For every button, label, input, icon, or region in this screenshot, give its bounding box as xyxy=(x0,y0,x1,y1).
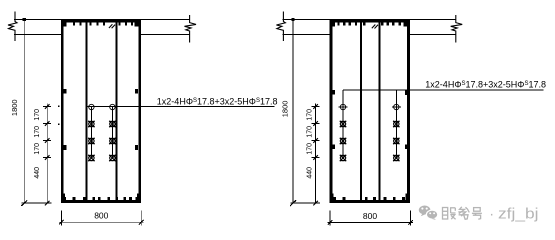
svg-text:1x2-4HΦS17.8+3x2-5HΦS17.8: 1x2-4HΦS17.8+3x2-5HΦS17.8 xyxy=(425,80,546,90)
dimension 800 bottom xyxy=(329,211,331,226)
break line left xyxy=(276,12,285,42)
web 2 xyxy=(378,22,380,200)
break line left xyxy=(8,12,17,42)
bar bend marks top middle xyxy=(372,25,376,29)
tendon column B connector xyxy=(395,90,397,158)
chain ticks xyxy=(43,107,51,158)
svg-text:800: 800 xyxy=(363,211,377,221)
web 2 xyxy=(115,22,117,200)
tendon anchors column A xyxy=(339,104,348,161)
beam bottom edge thick xyxy=(330,200,410,203)
deck slab soffit line left part xyxy=(14,33,61,35)
tendon anchors column B xyxy=(109,104,115,161)
svg-text:170: 170 xyxy=(307,109,314,121)
beam outline xyxy=(331,21,409,202)
glyph 服 xyxy=(443,208,456,220)
beam top edge thick xyxy=(61,20,141,23)
stirrup ticks bottom edge xyxy=(330,193,409,200)
extension dots xyxy=(58,106,60,108)
dimension 1800 right drawing xyxy=(292,19,294,203)
beam bottom edge thick xyxy=(61,200,141,203)
tendon column A connector xyxy=(342,90,344,158)
chain dimension line xyxy=(315,103,317,203)
bottom extension line xyxy=(22,202,52,204)
svg-text:440: 440 xyxy=(307,167,314,179)
big bubble xyxy=(419,206,431,215)
svg-text:170: 170 xyxy=(307,143,314,155)
break line right xyxy=(185,15,197,43)
deck slab soffit line right part xyxy=(141,33,190,35)
watermark text 服务号 drawn as paths xyxy=(443,207,482,220)
tendon column A connector xyxy=(90,107,92,158)
svg-text:·: · xyxy=(489,206,494,222)
tendon anchors column B xyxy=(392,104,401,161)
small bubble xyxy=(426,210,437,219)
deck slab top line xyxy=(14,18,189,20)
deck slab top line xyxy=(283,18,456,20)
beam outline xyxy=(62,21,140,202)
leader line / label underline xyxy=(343,89,543,91)
stirrup ticks top edge xyxy=(331,23,408,27)
web 1 xyxy=(86,22,88,200)
svg-text:170: 170 xyxy=(307,126,314,138)
stirrup ticks bottom edge xyxy=(62,193,140,200)
svg-text:800: 800 xyxy=(94,211,108,221)
svg-text:1800: 1800 xyxy=(280,101,289,118)
bar bend marks top middle xyxy=(109,24,113,28)
deck slab soffit lines xyxy=(283,33,331,35)
break line right xyxy=(451,15,463,43)
side wall ticks xyxy=(332,90,409,149)
glyph 号 xyxy=(472,208,482,220)
dimension 800 bottom xyxy=(60,211,62,226)
glyph 务 xyxy=(458,207,469,220)
svg-text:440: 440 xyxy=(34,167,41,179)
side wall ticks xyxy=(63,89,138,150)
leader line / label underline xyxy=(87,106,275,108)
beam top edge thick xyxy=(330,20,410,23)
dimension 1800 left xyxy=(23,19,25,203)
bottom extension line xyxy=(290,202,320,204)
web 1 xyxy=(360,22,362,200)
svg-text:1x2-4HΦS17.8+3x2-5HΦS17.8: 1x2-4HΦS17.8+3x2-5HΦS17.8 xyxy=(157,97,278,107)
svg-text:170: 170 xyxy=(34,126,41,138)
tendon anchors column A xyxy=(88,104,94,161)
svg-text:1800: 1800 xyxy=(10,99,19,116)
svg-text:zfj_bj: zfj_bj xyxy=(498,206,539,222)
chain dimension line xyxy=(46,103,48,203)
stirrup ticks top edge xyxy=(62,23,138,27)
tendon column B connector xyxy=(111,107,113,158)
svg-text:170: 170 xyxy=(34,143,41,155)
svg-text:170: 170 xyxy=(34,109,41,121)
